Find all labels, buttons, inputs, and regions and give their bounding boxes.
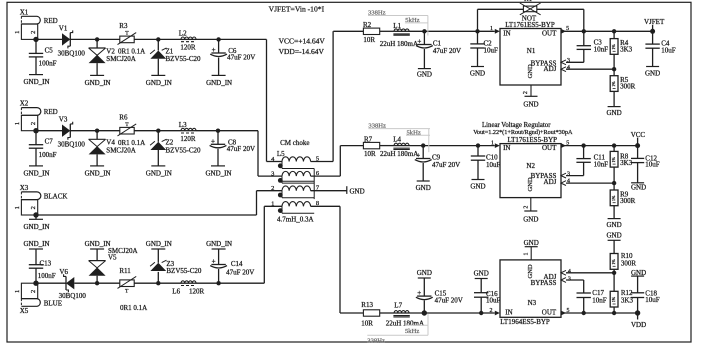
svg-text:1: 1 (490, 26, 493, 32)
svg-text:L5: L5 (277, 150, 285, 158)
svg-text:5: 5 (567, 308, 570, 314)
svg-text:N1: N1 (527, 47, 536, 55)
svg-text:47uF 20V: 47uF 20V (435, 297, 463, 305)
svg-text:100nF: 100nF (38, 272, 56, 280)
svg-text:GND: GND (523, 215, 538, 223)
svg-text:SMCJ20A: SMCJ20A (106, 146, 136, 154)
svg-text:2: 2 (490, 308, 493, 314)
svg-text:1%: 1% (611, 156, 616, 162)
svg-text:BLUE: BLUE (44, 300, 62, 308)
svg-text:CM choke: CM choke (280, 139, 309, 147)
svg-text:2: 2 (30, 206, 37, 209)
svg-text:3: 3 (567, 171, 570, 177)
svg-text:10nF: 10nF (594, 161, 609, 169)
svg-text:V1: V1 (59, 24, 68, 32)
svg-text:GND_IN: GND_IN (23, 223, 49, 231)
svg-text:GND: GND (524, 239, 539, 247)
svg-text:2: 2 (30, 122, 37, 125)
svg-text:GND: GND (474, 269, 489, 277)
svg-text:GND: GND (607, 109, 622, 117)
svg-text:22uH 180mA: 22uH 180mA (380, 40, 418, 48)
svg-text:GND: GND (527, 264, 534, 278)
svg-text:GND_IN: GND_IN (85, 169, 111, 177)
svg-text:ADJ: ADJ (544, 178, 557, 186)
svg-text:1%: 1% (611, 195, 616, 201)
svg-text:300R: 300R (620, 197, 636, 205)
svg-text:5: 5 (566, 141, 569, 147)
svg-text:3: 3 (271, 171, 274, 178)
svg-text:10uF: 10uF (661, 47, 676, 55)
svg-text:X3: X3 (20, 184, 29, 192)
svg-text:5: 5 (566, 26, 569, 32)
svg-text:GND: GND (470, 70, 485, 78)
svg-text:+: + (417, 38, 421, 46)
svg-text:C13: C13 (40, 259, 52, 267)
svg-text:GND: GND (607, 221, 622, 229)
svg-text:30BQ100: 30BQ100 (58, 141, 86, 149)
svg-text:GND: GND (527, 64, 534, 78)
svg-text:BYPASS: BYPASS (531, 279, 557, 287)
svg-text:1: 1 (524, 253, 530, 256)
svg-text:GND: GND (417, 71, 432, 79)
svg-text:1: 1 (491, 141, 494, 147)
svg-text:100nF: 100nF (39, 151, 57, 159)
svg-text:LT1761ES5-BYP: LT1761ES5-BYP (508, 136, 558, 144)
svg-text:120R: 120R (180, 44, 196, 52)
svg-text:2: 2 (524, 206, 530, 209)
svg-text:5: 5 (316, 155, 319, 162)
svg-text:BZV55-C20: BZV55-C20 (166, 267, 202, 275)
svg-text:T: T (125, 289, 129, 295)
svg-text:1: 1 (14, 31, 21, 34)
svg-text:GND_IN: GND_IN (85, 240, 111, 248)
svg-text:X5: X5 (20, 307, 29, 315)
svg-text:10R: 10R (361, 320, 373, 328)
svg-text:4: 4 (567, 179, 570, 185)
svg-text:2: 2 (30, 31, 37, 34)
svg-text:OUT: OUT (542, 144, 557, 152)
svg-text:GND_IN: GND_IN (205, 169, 231, 177)
svg-text:GND: GND (607, 231, 622, 239)
svg-text:300R: 300R (621, 259, 637, 267)
svg-text:1: 1 (271, 201, 274, 208)
svg-text:VJFET: VJFET (644, 18, 665, 26)
svg-text:1: 1 (14, 206, 21, 209)
svg-text:RED: RED (44, 17, 58, 25)
svg-text:VDD: VDD (631, 321, 646, 329)
svg-text:+: + (212, 258, 216, 266)
svg-text:4.7mH_0.3A: 4.7mH_0.3A (277, 215, 314, 223)
svg-text:10uF: 10uF (484, 47, 499, 55)
svg-text:OUT: OUT (542, 308, 557, 316)
svg-text:10uF: 10uF (645, 296, 660, 304)
svg-text:10R: 10R (363, 36, 375, 44)
svg-text:C7: C7 (45, 138, 54, 146)
svg-text:4: 4 (568, 269, 571, 275)
svg-text:1%: 1% (611, 296, 616, 302)
svg-text:R7: R7 (364, 135, 373, 143)
svg-text:ADJ: ADJ (544, 65, 557, 73)
svg-text:2: 2 (523, 91, 529, 94)
svg-text:GND: GND (631, 184, 646, 192)
svg-text:10uF: 10uF (645, 160, 660, 168)
svg-text:1%: 1% (611, 259, 616, 265)
svg-text:10R: 10R (364, 150, 376, 158)
svg-text:+: + (416, 152, 420, 160)
svg-text:RED: RED (44, 108, 58, 116)
svg-text:VCC=+14.64V: VCC=+14.64V (279, 37, 326, 46)
svg-text:L7: L7 (394, 302, 402, 310)
svg-text:+: + (417, 289, 421, 297)
svg-text:Linear Voltage Regulator: Linear Voltage Regulator (482, 122, 551, 129)
svg-text:10uF: 10uF (486, 297, 501, 305)
svg-text:L6: L6 (172, 287, 180, 295)
svg-text:VDD=-14.64V: VDD=-14.64V (279, 47, 325, 56)
svg-text:30BQ100: 30BQ100 (59, 292, 87, 300)
svg-text:GND_IN: GND_IN (23, 240, 49, 248)
svg-text:L1: L1 (393, 22, 401, 30)
svg-text:C5: C5 (45, 46, 54, 54)
svg-text:L3: L3 (179, 121, 187, 129)
svg-text:VJFET=Vin -10*I: VJFET=Vin -10*I (269, 5, 325, 14)
svg-text:3K3: 3K3 (620, 45, 633, 53)
svg-text:2: 2 (271, 185, 274, 192)
svg-text:R2: R2 (363, 21, 372, 29)
svg-text:3: 3 (567, 58, 570, 64)
svg-text:GND_IN: GND_IN (206, 240, 232, 248)
svg-text:+: + (211, 137, 215, 145)
svg-text:47uF 20V: 47uF 20V (432, 161, 460, 169)
svg-text:47uF 20V: 47uF 20V (227, 54, 255, 62)
svg-text:GND: GND (645, 70, 660, 78)
svg-text:3: 3 (568, 276, 571, 282)
svg-text:8: 8 (316, 200, 319, 207)
svg-text:L2: L2 (179, 30, 187, 38)
svg-text:47uF 20V: 47uF 20V (226, 268, 254, 276)
svg-text:300R: 300R (620, 83, 636, 91)
svg-text:BLACK: BLACK (44, 192, 68, 200)
svg-text:BZV55-C20: BZV55-C20 (166, 55, 202, 63)
svg-text:1%: 1% (611, 81, 616, 87)
svg-text:1: 1 (14, 122, 21, 125)
svg-text:30BQ100: 30BQ100 (58, 49, 86, 57)
svg-text:0R1 0.1A: 0R1 0.1A (118, 139, 145, 147)
svg-text:GND_IN: GND_IN (206, 79, 232, 87)
svg-text:C14: C14 (231, 260, 243, 268)
svg-text:IN: IN (505, 308, 512, 316)
svg-text:+: + (212, 46, 216, 54)
svg-text:V3: V3 (59, 116, 68, 124)
svg-text:GND_IN: GND_IN (85, 79, 111, 87)
svg-text:120R: 120R (189, 287, 205, 295)
svg-text:1: 1 (14, 290, 21, 293)
svg-text:V5: V5 (108, 254, 117, 262)
svg-text:IN: IN (503, 144, 510, 152)
svg-text:22uH 180mA: 22uH 180mA (386, 320, 424, 328)
svg-text:120R: 120R (180, 135, 196, 143)
svg-text:Vout=1.22*(1+Rout/Rgnd)+Rout*3: Vout=1.22*(1+Rout/Rgnd)+Rout*30pA (473, 129, 573, 136)
svg-text:R3: R3 (119, 22, 128, 30)
svg-text:GND_IN: GND_IN (23, 169, 49, 177)
svg-text:R11: R11 (119, 267, 131, 275)
svg-text:GND: GND (631, 269, 646, 277)
svg-text:GND_IN: GND_IN (146, 169, 172, 177)
svg-text:47uF 20V: 47uF 20V (433, 47, 461, 55)
svg-text:V6: V6 (59, 268, 68, 276)
svg-text:GND: GND (527, 177, 534, 191)
svg-text:GND: GND (470, 183, 485, 191)
svg-text:IN: IN (503, 29, 510, 37)
svg-text:10nF: 10nF (592, 296, 607, 304)
svg-text:OUT: OUT (542, 29, 557, 37)
svg-text:L4: L4 (393, 135, 401, 143)
svg-text:SMCJ20A: SMCJ20A (106, 55, 136, 63)
svg-text:5kHz: 5kHz (405, 328, 419, 335)
svg-text:GND: GND (417, 269, 432, 277)
svg-text:47uF 20V: 47uF 20V (227, 145, 255, 153)
svg-text:1%: 1% (611, 44, 616, 50)
svg-text:LT1761ES5-BYP: LT1761ES5-BYP (505, 21, 555, 29)
svg-text:0R1 0.1A: 0R1 0.1A (118, 48, 145, 56)
svg-text:0R1 0.1A: 0R1 0.1A (120, 304, 147, 312)
svg-text:R13: R13 (361, 301, 373, 309)
svg-text:338Hz: 338Hz (367, 338, 385, 345)
svg-text:GND: GND (350, 188, 365, 196)
svg-text:100nF: 100nF (39, 60, 57, 68)
svg-text:GND: GND (416, 184, 431, 192)
svg-text:10nF: 10nF (594, 46, 609, 54)
svg-text:X1: X1 (20, 8, 29, 16)
svg-text:GND_IN: GND_IN (146, 240, 172, 248)
svg-text:N3: N3 (528, 299, 537, 307)
svg-text:BZV55-C20: BZV55-C20 (166, 146, 202, 154)
svg-text:LT1964ES5-BYP: LT1964ES5-BYP (500, 318, 550, 326)
svg-text:N2: N2 (526, 162, 535, 170)
svg-text:R6: R6 (119, 113, 128, 121)
svg-text:GND: GND (523, 101, 538, 109)
svg-text:2: 2 (30, 290, 37, 293)
svg-text:R1: R1 (524, 0, 533, 3)
svg-text:22uH 180mA: 22uH 180mA (380, 150, 418, 158)
svg-text:X2: X2 (20, 100, 29, 108)
svg-text:10uF: 10uF (486, 161, 501, 169)
svg-text:GND_IN: GND_IN (146, 79, 172, 87)
svg-text:3K3: 3K3 (620, 159, 633, 167)
svg-text:4: 4 (567, 65, 570, 71)
svg-text:GND_IN: GND_IN (23, 78, 49, 86)
